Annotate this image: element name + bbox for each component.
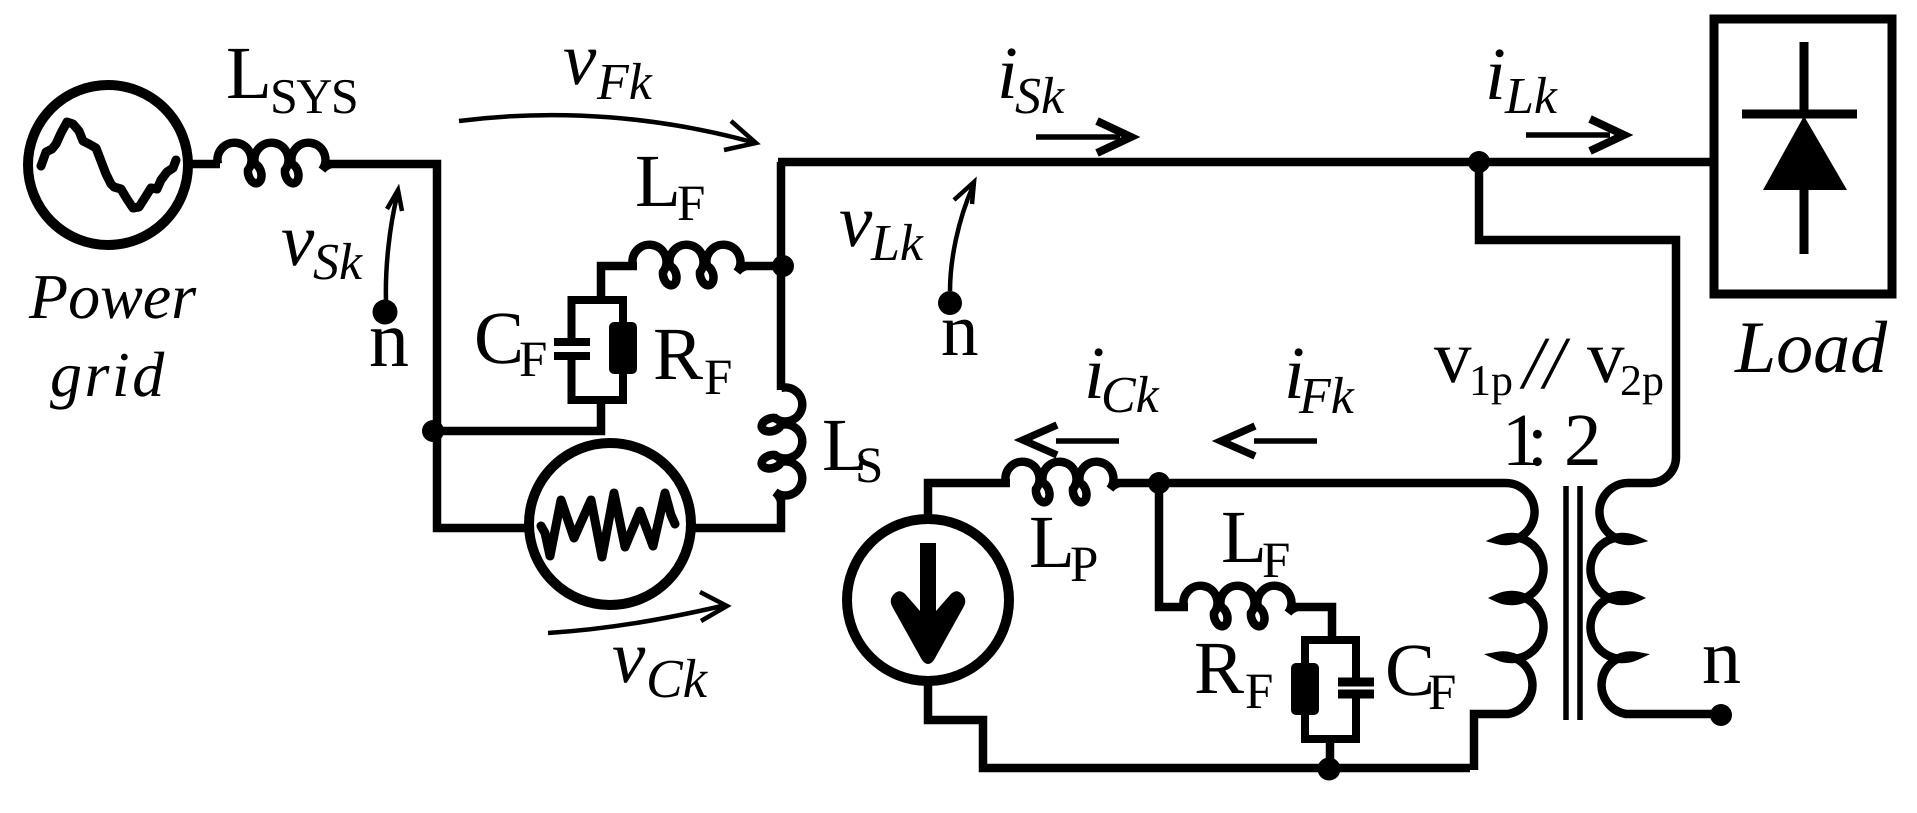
junction dot on top bus [1468,151,1490,173]
wire L_F left down to parallel block [601,266,637,300]
wire from source to L_SYS [188,160,220,169]
current source arrow shaft [891,543,966,664]
svg-text:S: S [855,438,883,494]
svg-text:F: F [704,350,732,406]
wire current source bottom to bottom bus and up to primary [928,685,1470,768]
svg-text:Fk: Fk [1298,368,1355,425]
junction node at L_F right end [772,255,794,277]
svg-text:R: R [1194,627,1244,710]
svg-text:F: F [677,176,705,232]
svg-text:L: L [635,140,681,223]
svg-text:Load: Load [1734,307,1888,389]
wire L_P right to transformer primary [1117,479,1506,488]
resistor R_F filled body (top block) [609,322,637,374]
stub from block bottom to left junction wire [433,400,601,431]
v_Sk curved arrow [386,196,397,301]
diode triangle [1763,116,1847,190]
svg-text:Sk: Sk [313,234,363,291]
wire from L_SYS to corner, down to junction, down to bottom corner, right to harmonic source [329,164,528,528]
svg-text:n: n [1702,613,1741,700]
svg-text:v: v [1434,316,1472,399]
inductor L_F (top filter) [632,245,746,286]
capacitor C_F plates (bottom block) [1338,682,1374,694]
harmonic voltage source circle [529,443,691,605]
branch from bus junction down to transformer secondary [1479,162,1676,455]
inductor L_P [1005,462,1119,503]
parallel block R_F / C_F frame [1305,640,1356,739]
svg-text::: : [1527,399,1548,482]
wire L_F right to junction [744,262,781,271]
node n dot (v_Sk reference) [373,300,398,325]
v_Lk curved arrow [950,186,973,291]
svg-text:2p: 2p [1620,356,1664,405]
svg-text:v: v [563,18,597,101]
transformer core lines [1566,486,1580,720]
svg-text:F: F [519,332,547,388]
svg-text:Power: Power [28,261,197,332]
transformer secondary coil [1590,455,1712,714]
svg-text:Lk: Lk [870,215,924,272]
svg-text:Lk: Lk [1504,68,1558,125]
svg-text:1p: 1p [1469,356,1513,405]
wire current source top to L_P [928,483,1010,519]
svg-text://: // [1519,322,1571,405]
parallel block C_F / R_F frame [572,300,624,400]
inductor L_S (vertical coil) [762,387,803,501]
inductor L_F (bottom filter) [1183,586,1297,627]
svg-text:F: F [1262,533,1290,589]
svg-text:n: n [369,296,409,384]
svg-text:F: F [1428,665,1456,721]
junction dot left [422,420,444,442]
svg-text:2: 2 [1564,399,1602,482]
sine wave inside power grid source [41,122,176,208]
svg-text:v: v [839,180,873,263]
inductor L_SYS [217,143,331,184]
stub block2 bottom to bottom bus [1326,739,1335,768]
node n dot (v_Lk reference) [938,291,962,315]
svg-text:R: R [653,313,703,396]
zigzag wave inside harmonic source [541,493,675,557]
svg-text:P: P [1070,537,1098,593]
wire L_S top up to top bus [777,162,786,390]
node n dot (transformer secondary) [1710,704,1732,726]
wire harmonic source right to L_S bottom [692,499,781,528]
v_Fk curved arrow [459,115,752,142]
svg-text:n: n [941,289,979,372]
v_Ck curved arrow [548,606,722,633]
svg-text:i: i [1485,33,1506,116]
svg-text:v: v [612,616,646,699]
svg-text:L: L [226,32,272,115]
i_Fk arrow [1254,438,1317,444]
svg-text:C: C [474,297,524,380]
junction dot after L_P [1148,472,1170,494]
svg-text:L: L [1221,496,1267,579]
svg-text:SYS: SYS [270,68,357,124]
svg-text:v: v [281,199,315,282]
wire L_F to parallel block 2 [1295,607,1332,640]
diode bottom lead [1800,190,1809,254]
current source circle [847,519,1009,681]
resistor R_F filled body (bottom block) [1291,663,1319,715]
power grid source AC circle [28,85,188,245]
diode cathode bar [1742,110,1857,119]
svg-text:Ck: Ck [646,648,709,709]
diode inside load: top lead [1800,42,1809,114]
svg-text:Sk: Sk [1015,68,1065,125]
svg-text:L: L [1029,501,1075,584]
top bus wire [778,158,1713,167]
i_Lk arrow [1526,132,1610,138]
junction dot bottom bus [1318,758,1341,781]
capacitor C_F plates (top block) [554,342,590,356]
i_Sk arrow [1036,134,1120,140]
svg-text:F: F [1245,664,1273,720]
svg-text:Fk: Fk [596,54,653,111]
branch down to second L_F [1159,483,1188,607]
i_Ck arrow [1056,438,1119,444]
transformer primary coil [1474,483,1544,770]
svg-text:grid: grid [50,339,167,410]
Load box [1714,19,1892,294]
svg-text:Ck: Ck [1101,367,1160,424]
